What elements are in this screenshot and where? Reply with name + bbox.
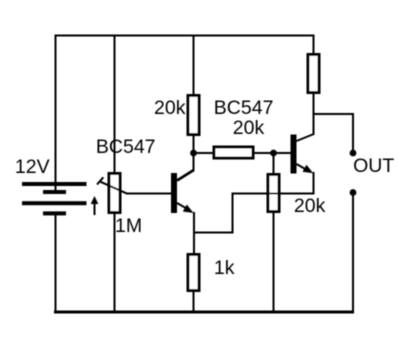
svg-text:1k: 1k	[214, 257, 235, 279]
svg-text:20k: 20k	[294, 195, 326, 217]
svg-text:1M: 1M	[115, 215, 142, 237]
svg-text:20k: 20k	[233, 117, 265, 139]
svg-text:BC547: BC547	[214, 97, 274, 119]
svg-text:20k: 20k	[154, 97, 186, 119]
svg-text:BC547: BC547	[96, 136, 156, 158]
svg-text:OUT: OUT	[353, 155, 394, 177]
svg-text:12V: 12V	[15, 156, 50, 178]
